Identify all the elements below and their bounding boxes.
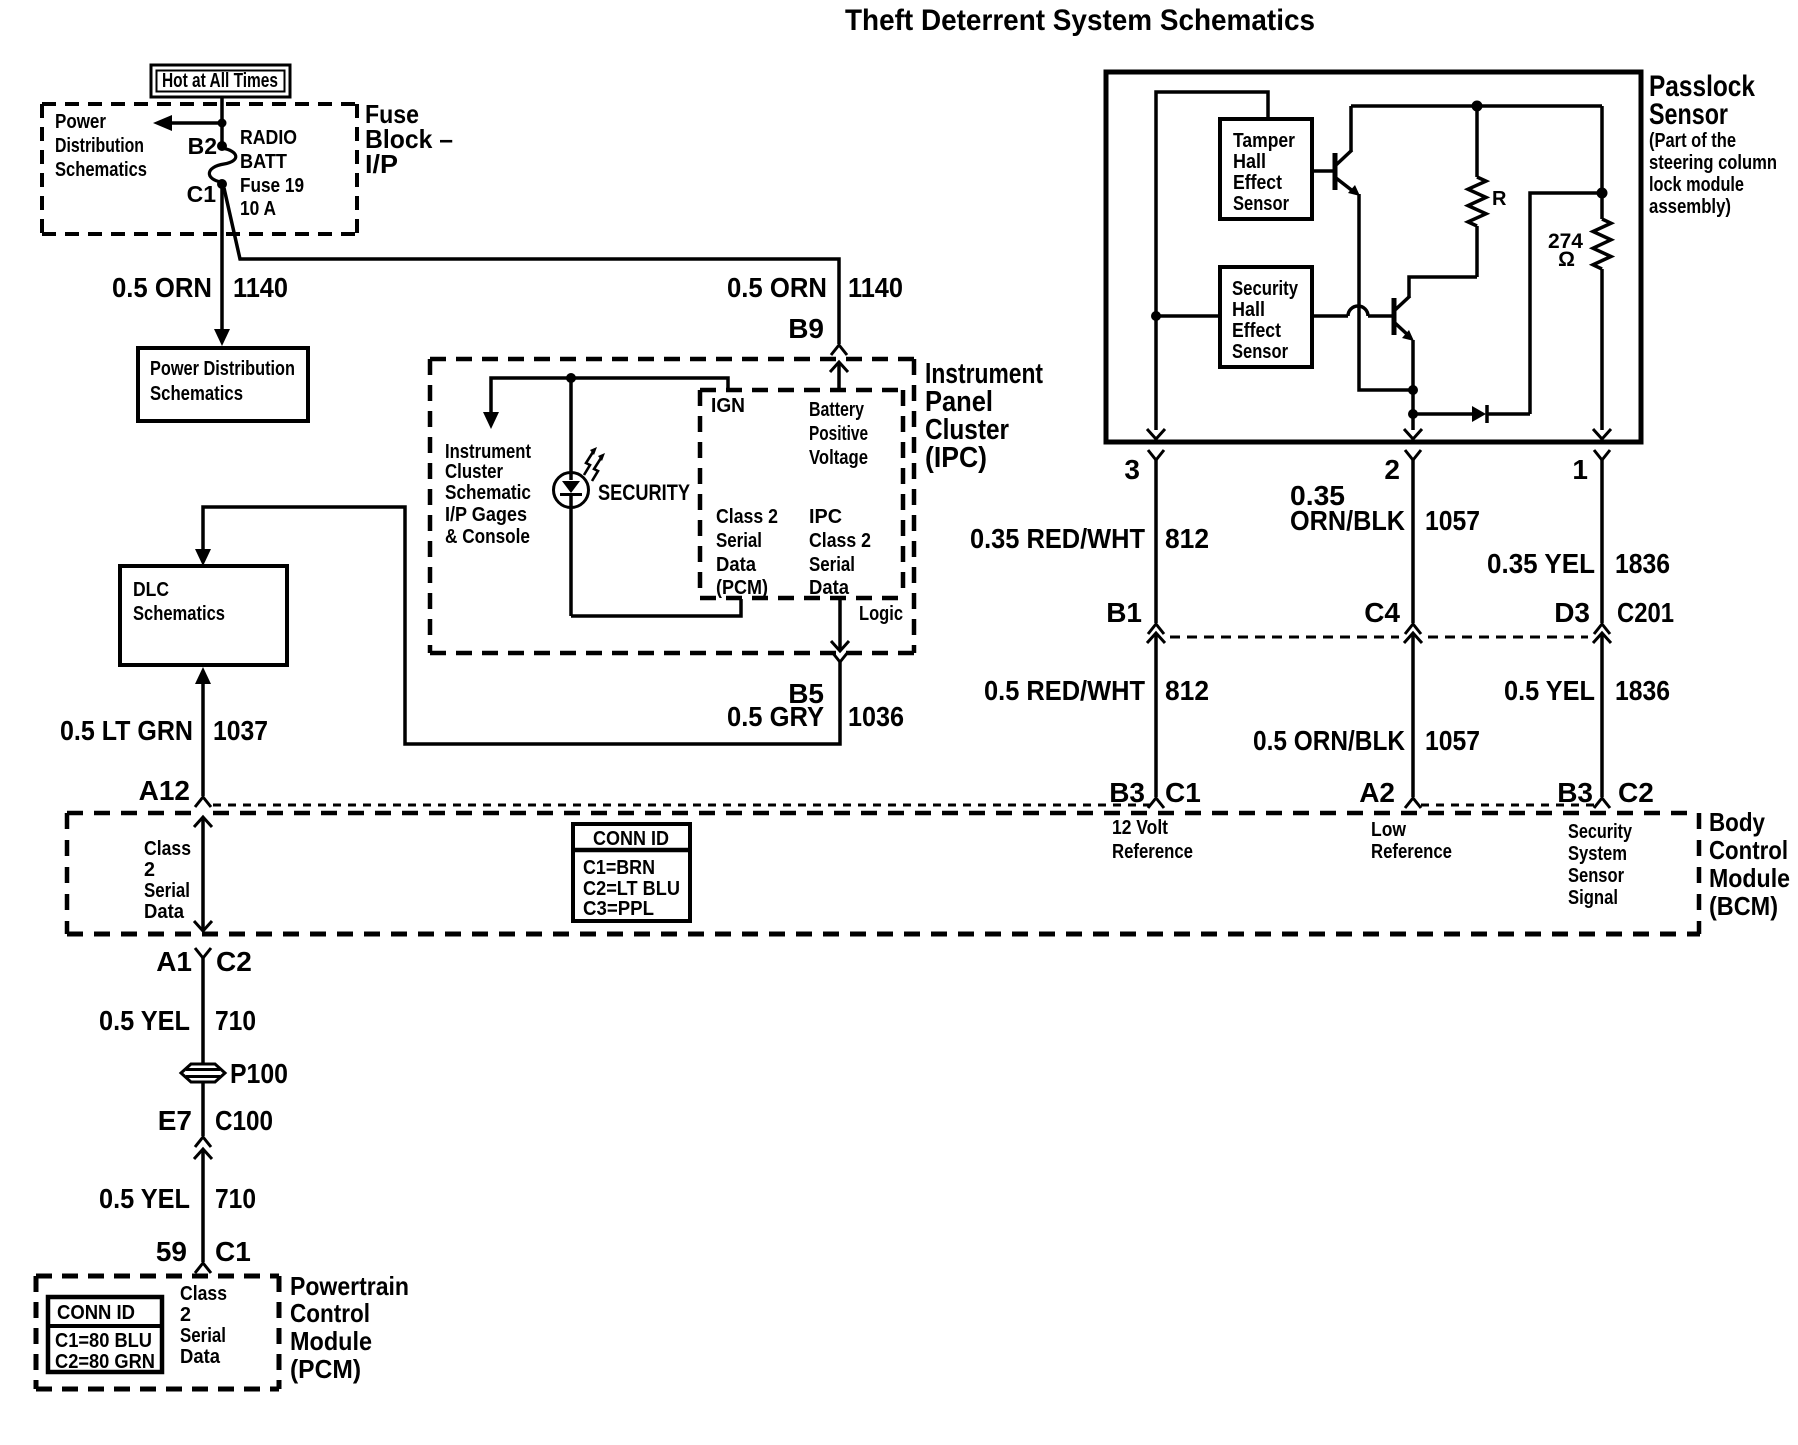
svg-text:1036: 1036: [848, 701, 904, 732]
wire: supply to tamper sensor: [1156, 92, 1268, 430]
resistor 274 ohm: [1593, 106, 1611, 430]
svg-text:C3=PPL: C3=PPL: [583, 898, 654, 920]
svg-text:Ω: Ω: [1558, 248, 1575, 271]
table: BCM CONN ID: [573, 824, 690, 921]
label: Body Control Module (BCM): [1709, 807, 1790, 921]
svg-text:ORN/BLK: ORN/BLK: [1290, 505, 1405, 536]
svg-text:C2: C2: [1618, 777, 1654, 808]
svg-text:SECURITY: SECURITY: [598, 480, 690, 505]
wire: fuse C1 down: [220, 186, 224, 331]
svg-text:0.5 YEL: 0.5 YEL: [99, 1183, 190, 1214]
svg-text:DLC: DLC: [133, 579, 169, 601]
svg-text:Tamper: Tamper: [1233, 130, 1295, 152]
terminal: Class 2 Serial Data (PCM): [716, 506, 778, 599]
net label: 0.5 LT GRN 1037: [60, 715, 268, 746]
svg-text:lock module: lock module: [1649, 174, 1744, 196]
pin B2: [188, 133, 227, 159]
svg-text:Power: Power: [55, 111, 106, 133]
connector break at BCM (3): [1148, 798, 1164, 808]
svg-text:1836: 1836: [1615, 548, 1670, 579]
note: Instrument Cluster Schematic I/P Gages & Console: [445, 441, 531, 548]
IPC outer dashed box: [430, 359, 914, 653]
svg-text:RADIO: RADIO: [240, 127, 297, 149]
fuse F19 RADIO BATT 10A symbol: [209, 148, 235, 182]
svg-text:Hall: Hall: [1233, 151, 1266, 173]
resistor R: [1468, 106, 1486, 277]
svg-text:0.5 ORN/BLK: 0.5 ORN/BLK: [1253, 725, 1405, 756]
svg-text:Data: Data: [809, 577, 850, 599]
svg-text:1037: 1037: [213, 715, 268, 746]
svg-text:A2: A2: [1359, 777, 1395, 808]
net label: 0.5 YEL 1836: [1504, 675, 1670, 706]
Passlock Sensor box: [1106, 72, 1641, 442]
svg-text:Sensor: Sensor: [1568, 865, 1624, 887]
value label: RADIO BATT Fuse 19 10 A: [240, 127, 304, 220]
wire segment C201 to BCM pin 1: [1600, 633, 1604, 797]
connector break at BCM (1): [1594, 798, 1610, 808]
svg-text:Sensor: Sensor: [1233, 193, 1289, 215]
pin C1: [187, 180, 227, 208]
svg-text:2: 2: [180, 1304, 191, 1326]
svg-text:1: 1: [1572, 454, 1588, 485]
BCM dashed outline: [67, 813, 1700, 934]
arrow into DLC Schematics box: [195, 549, 211, 566]
svg-text:0.5 LT GRN: 0.5 LT GRN: [60, 715, 193, 746]
svg-text:Reference: Reference: [1112, 841, 1193, 863]
svg-text:Schematics: Schematics: [55, 159, 147, 181]
wire: Q2 emitter down: [1411, 340, 1415, 430]
svg-text:BATT: BATT: [240, 151, 287, 173]
svg-text:0.35 RED/WHT: 0.35 RED/WHT: [970, 523, 1145, 554]
terminal: Class 2 Serial Data (PCM): [180, 1283, 227, 1368]
arrow into Power Distribution Schematics box: [214, 329, 230, 346]
svg-text:B1: B1: [1106, 597, 1142, 628]
wire: B5 loop to DLC: [203, 507, 840, 744]
net label: 0.35 RED/WHT 812: [970, 523, 1209, 554]
connector break below BCM at A1/C2: [195, 948, 211, 958]
LED emission arrows: [584, 447, 605, 481]
connector break at PCM: [195, 1263, 211, 1273]
svg-text:R: R: [1492, 188, 1507, 210]
svg-text:C1=BRN: C1=BRN: [583, 857, 655, 879]
svg-text:Serial: Serial: [180, 1325, 226, 1347]
svg-text:Schematics: Schematics: [150, 383, 243, 405]
diode D1: [1413, 405, 1530, 423]
box: Security Hall Effect Sensor: [1220, 267, 1312, 367]
svg-text:Fuse 19: Fuse 19: [240, 175, 304, 197]
arrow to Instrument Cluster Schematic: [483, 412, 499, 429]
svg-text:Instrument: Instrument: [445, 441, 531, 463]
svg-text:E7: E7: [158, 1105, 192, 1136]
pin 3 connector: [1124, 450, 1164, 485]
net label: 0.5 YEL 710 (upper): [99, 1005, 256, 1036]
svg-text:(IPC): (IPC): [925, 442, 987, 474]
svg-text:C4: C4: [1364, 597, 1400, 628]
wire: LED cathode to Class 2 Serial Data (PCM): [571, 599, 741, 616]
svg-text:Distribution: Distribution: [55, 135, 144, 157]
connector break at B5: [832, 652, 848, 662]
svg-text:Logic: Logic: [859, 603, 903, 625]
svg-text:I/P Gages: I/P Gages: [445, 504, 527, 526]
wire: C100 to PCM pin 59: [201, 1149, 205, 1262]
IPC logic inner dashed box: [700, 390, 903, 598]
svg-text:& Console: & Console: [445, 526, 530, 548]
svg-text:Serial: Serial: [144, 880, 190, 902]
terminal: IPC Class 2 Serial Data: [809, 506, 871, 599]
connector break at A12: [195, 797, 211, 807]
svg-text:Security: Security: [1568, 821, 1633, 843]
svg-text:1140: 1140: [233, 272, 288, 303]
BCM connector C2 dotted boundary: [1421, 804, 1594, 807]
pin B3 (C1): [1109, 777, 1201, 808]
svg-text:B2: B2: [188, 133, 217, 159]
svg-text:D3: D3: [1554, 597, 1590, 628]
fuse block I/P dashed box: [42, 104, 357, 234]
arrow at pin 3 inside box: [1147, 429, 1165, 439]
node: junction at SECURITY lamp: [567, 374, 576, 383]
wire segment pin 2 to C201: [1411, 460, 1415, 623]
in-line connector C201 at pin 3 wire: [1147, 624, 1165, 643]
svg-text:Module: Module: [1709, 863, 1790, 893]
svg-text:Schematics: Schematics: [133, 603, 225, 625]
svg-text:Signal: Signal: [1568, 887, 1618, 909]
wire: IGN feed with junction: [491, 378, 728, 412]
svg-text:IGN: IGN: [711, 395, 745, 417]
node: junction to power distribution arrow: [218, 119, 226, 127]
note: part of steering column lock module assembly: [1649, 130, 1777, 218]
svg-text:Theft Deterrent System Schemat: Theft Deterrent System Schematics: [845, 4, 1315, 37]
svg-text:Serial: Serial: [716, 530, 762, 552]
label: Powertrain Control Module (PCM): [290, 1271, 409, 1384]
wire: Class 2 Serial Data double arrow inside BCM: [194, 817, 212, 931]
wire arrow to Power Distribution Schematics (left): [153, 115, 222, 131]
box: Tamper Hall Effect Sensor: [1220, 119, 1312, 219]
svg-text:1836: 1836: [1615, 675, 1670, 706]
C201 dashed connector line: [1170, 636, 1588, 639]
wire segment pin 3 to C201: [1154, 460, 1158, 623]
svg-text:0.5 GRY: 0.5 GRY: [727, 701, 824, 732]
svg-text:Data: Data: [716, 554, 757, 576]
svg-text:710: 710: [215, 1005, 256, 1036]
label box: Hot at All Times: [151, 65, 290, 97]
wire: P100 to C100: [201, 1082, 205, 1136]
svg-text:A1: A1: [156, 946, 192, 977]
svg-text:3: 3: [1124, 454, 1140, 485]
svg-text:System: System: [1568, 843, 1627, 865]
terminal: Battery Positive Voltage: [809, 399, 868, 469]
svg-text:Serial: Serial: [809, 554, 855, 576]
node: diode branch junction: [1409, 410, 1418, 419]
svg-text:CONN ID: CONN ID: [593, 828, 669, 850]
BCM connector C1 dotted boundary: [213, 804, 1150, 807]
pin 2 connector: [1384, 450, 1421, 485]
wire: to security sensor: [1156, 314, 1220, 318]
arrow at pin 2 inside box: [1404, 429, 1422, 439]
in-line connector C201 at pin 2 wire: [1404, 624, 1422, 643]
svg-text:Class 2: Class 2: [716, 506, 778, 528]
svg-text:A12: A12: [139, 775, 190, 806]
wire: R bottom to Q2 collector: [1409, 277, 1477, 297]
net label: 0.5 ORN 1140 (right): [727, 272, 903, 303]
svg-text:C1=80 BLU: C1=80 BLU: [55, 1330, 152, 1352]
svg-text:Positive: Positive: [809, 423, 868, 445]
svg-text:B3: B3: [1109, 777, 1145, 808]
in-line connector C201 at pin 1 wire: [1593, 624, 1611, 643]
svg-text:Hot at All Times: Hot at All Times: [162, 70, 278, 92]
svg-text:0.5 RED/WHT: 0.5 RED/WHT: [984, 675, 1145, 706]
wire segment C201 to BCM pin 2: [1411, 633, 1415, 797]
svg-text:Module: Module: [290, 1326, 372, 1356]
svg-text:812: 812: [1165, 675, 1209, 706]
connector break at B9: [831, 345, 847, 355]
svg-text:2: 2: [144, 859, 155, 881]
wire segment C201 to BCM pin 3: [1154, 633, 1158, 797]
wire: Q1 emitter down to Q2 emitter node: [1359, 194, 1411, 390]
svg-text:(PCM): (PCM): [716, 577, 768, 599]
pin B3 (C2): [1557, 777, 1654, 808]
svg-text:Control: Control: [290, 1298, 370, 1328]
node: junction on pin 3 wire: [1152, 312, 1161, 321]
svg-text:B9: B9: [788, 313, 824, 344]
wire: diode to 274 ohm tap: [1530, 193, 1600, 414]
svg-text:59: 59: [156, 1236, 187, 1267]
svg-text:0.5 YEL: 0.5 YEL: [1504, 675, 1595, 706]
svg-text:C2=LT BLU: C2=LT BLU: [583, 878, 680, 900]
svg-text:0.5 ORN: 0.5 ORN: [727, 272, 827, 303]
svg-text:Effect: Effect: [1233, 172, 1282, 194]
svg-text:P100: P100: [230, 1058, 288, 1089]
terminal: 12 Volt Reference: [1112, 817, 1193, 863]
wire: class 2 serial data to P100: [201, 958, 205, 1064]
svg-text:Control: Control: [1709, 835, 1788, 865]
label: Fuse Block - I/P: [365, 99, 453, 179]
wire: IPC class 2 serial data out to B5: [831, 598, 849, 651]
svg-text:10 A: 10 A: [240, 198, 276, 220]
PCM dashed box: [36, 1276, 279, 1389]
net label: 0.5 GRY 1036: [727, 701, 904, 732]
svg-text:Powertrain: Powertrain: [290, 1271, 409, 1301]
svg-text:steering column: steering column: [1649, 152, 1777, 174]
node: junction rail/R: [1472, 101, 1482, 111]
node: tap junction on pin 1 wire: [1597, 188, 1607, 198]
box: Power Distribution Schematics: [138, 348, 308, 421]
svg-text:CONN ID: CONN ID: [57, 1302, 135, 1324]
svg-text:812: 812: [1165, 523, 1209, 554]
wire: fuse output diagonal then across to B9: [224, 188, 839, 344]
svg-text:(PCM): (PCM): [290, 1354, 361, 1384]
svg-text:Hall: Hall: [1232, 299, 1265, 321]
svg-text:B3: B3: [1557, 777, 1593, 808]
svg-text:(BCM): (BCM): [1709, 891, 1778, 921]
svg-text:1140: 1140: [848, 272, 903, 303]
label: Instrument Panel Cluster (IPC): [925, 358, 1043, 474]
svg-text:0.5 YEL: 0.5 YEL: [99, 1005, 190, 1036]
svg-text:C1: C1: [187, 181, 217, 207]
table: PCM CONN ID: [48, 1297, 162, 1373]
svg-text:1057: 1057: [1425, 725, 1480, 756]
svg-text:Data: Data: [144, 901, 185, 923]
svg-text:(Part of the: (Part of the: [1649, 130, 1736, 152]
svg-text:Power Distribution: Power Distribution: [150, 358, 295, 380]
net label: 0.35 YEL 1836: [1487, 548, 1670, 579]
svg-text:Reference: Reference: [1371, 841, 1452, 863]
svg-text:Sensor: Sensor: [1232, 341, 1288, 363]
svg-text:IPC: IPC: [809, 506, 842, 528]
wire: security sensor to Q2 base with hop over Q1 emitter: [1312, 306, 1392, 316]
svg-text:Data: Data: [180, 1346, 221, 1368]
svg-text:Battery: Battery: [809, 399, 865, 421]
svg-text:C1: C1: [1165, 777, 1201, 808]
terminal: Low Reference: [1371, 819, 1452, 863]
svg-text:Cluster: Cluster: [445, 461, 503, 483]
terminal: Class 2 Serial Data (BCM): [144, 838, 191, 923]
svg-text:C100: C100: [215, 1105, 273, 1136]
svg-text:Sensor: Sensor: [1649, 98, 1728, 131]
svg-text:710: 710: [215, 1183, 256, 1214]
svg-text:Schematic: Schematic: [445, 482, 531, 504]
wire segment pin 1 to C201: [1600, 460, 1604, 623]
net label: 0.5 ORN 1140 (left): [112, 272, 288, 303]
wire: BCM class 2 serial data up to DLC: [195, 667, 211, 796]
transistor Q2 (security, NPN): [1394, 296, 1414, 341]
svg-text:Low: Low: [1371, 819, 1406, 841]
svg-text:Class: Class: [180, 1283, 227, 1305]
svg-text:assembly): assembly): [1649, 196, 1731, 218]
svg-text:2: 2: [1384, 454, 1400, 485]
svg-text:Security: Security: [1232, 278, 1299, 300]
pin 1 connector: [1572, 450, 1610, 485]
label: Passlock Sensor: [1649, 70, 1755, 131]
svg-text:C201: C201: [1617, 597, 1674, 628]
svg-text:12 Volt: 12 Volt: [1112, 817, 1168, 839]
net label: 0.5 RED/WHT 812: [984, 675, 1209, 706]
net label: 0.5 ORN/BLK 1057: [1253, 725, 1480, 756]
wire: Hot at All Times down to fuse: [220, 97, 224, 146]
terminal: Security System Sensor Signal: [1568, 821, 1633, 909]
svg-text:Voltage: Voltage: [809, 447, 868, 469]
svg-text:Effect: Effect: [1232, 320, 1281, 342]
svg-text:1057: 1057: [1425, 505, 1480, 536]
svg-text:Class: Class: [144, 838, 191, 860]
box: DLC Schematics: [120, 566, 287, 665]
net label: 0.35 ORN/BLK 1057: [1290, 480, 1480, 536]
wire: top rail: [1351, 104, 1602, 108]
node: Q1/Q2 emitter junction: [1409, 386, 1418, 395]
net label: 0.5 YEL 710 (lower): [99, 1183, 256, 1214]
connector break at BCM (2): [1405, 798, 1421, 808]
svg-text:0.5 ORN: 0.5 ORN: [112, 272, 212, 303]
transistor Q1 (tamper, NPN): [1312, 106, 1360, 196]
splice P100: [181, 1058, 288, 1089]
svg-text:C1: C1: [215, 1236, 251, 1267]
arrow at pin 1 inside box: [1593, 429, 1611, 439]
wire: B9 entry arrow into Battery Positive Voltage: [830, 362, 848, 390]
note: Power Distribution Schematics (in fuse block): [55, 111, 147, 181]
value label: 274 ohm: [1548, 230, 1583, 271]
svg-text:C2: C2: [216, 946, 252, 977]
svg-text:Class 2: Class 2: [809, 530, 871, 552]
svg-text:Body: Body: [1709, 807, 1765, 837]
in-line connector C100: [194, 1137, 212, 1159]
svg-text:C2=80 GRN: C2=80 GRN: [55, 1351, 155, 1373]
SECURITY indicator LED lamp: [554, 378, 589, 616]
svg-text:0.35 YEL: 0.35 YEL: [1487, 548, 1595, 579]
svg-text:I/P: I/P: [365, 149, 398, 179]
